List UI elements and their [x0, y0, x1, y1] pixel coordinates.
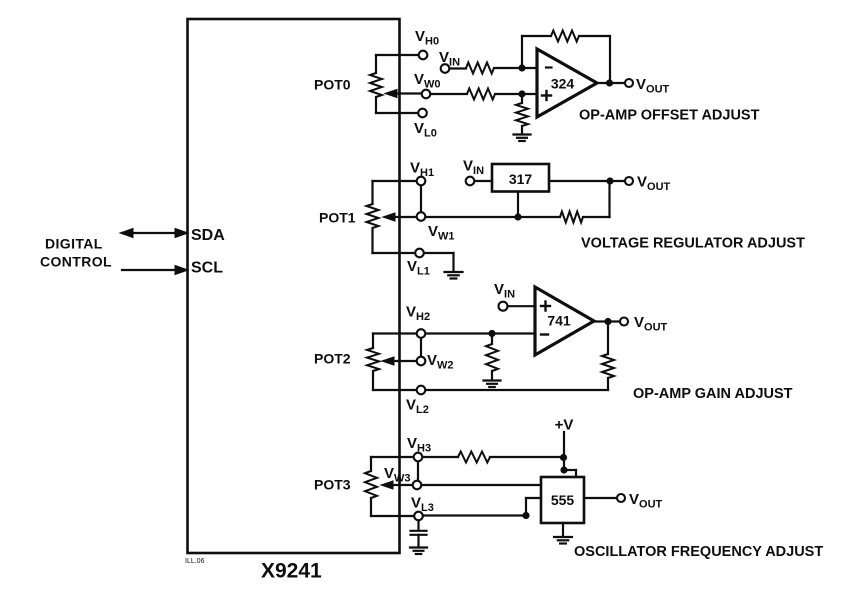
svg-text:317: 317: [509, 171, 533, 187]
svg-text:VH2: VH2: [406, 304, 430, 324]
svg-text:VW2: VW2: [427, 352, 454, 372]
svg-text:VIN: VIN: [494, 281, 515, 301]
svg-text:VL2: VL2: [406, 397, 429, 417]
svg-text:OP-AMP GAIN ADJUST: OP-AMP GAIN ADJUST: [633, 386, 793, 402]
svg-text:SDA: SDA: [191, 227, 225, 244]
svg-text:VW0: VW0: [414, 71, 441, 91]
svg-text:VH0: VH0: [415, 28, 439, 48]
svg-text:VW1: VW1: [428, 223, 455, 243]
svg-text:324: 324: [551, 76, 575, 92]
svg-text:VOUT: VOUT: [634, 314, 668, 334]
svg-text:VOUT: VOUT: [637, 174, 671, 194]
svg-text:X9241: X9241: [261, 560, 322, 583]
svg-text:VOUT: VOUT: [636, 76, 670, 96]
svg-text:VL1: VL1: [407, 258, 430, 278]
svg-text:ILL.06: ILL.06: [185, 558, 205, 565]
svg-text:DIGITAL: DIGITAL: [45, 236, 103, 252]
svg-text:VIN: VIN: [463, 158, 484, 178]
svg-text:CONTROL: CONTROL: [40, 254, 112, 270]
svg-text:VOUT: VOUT: [629, 491, 663, 511]
svg-text:POT0: POT0: [314, 77, 351, 93]
svg-text:OSCILLATOR FREQUENCY ADJUST: OSCILLATOR FREQUENCY ADJUST: [574, 544, 823, 560]
svg-text:VW3: VW3: [384, 465, 411, 485]
svg-text:VOLTAGE REGULATOR ADJUST: VOLTAGE REGULATOR ADJUST: [581, 236, 805, 252]
svg-text:POT3: POT3: [314, 477, 351, 493]
svg-text:POT2: POT2: [314, 351, 351, 367]
svg-text:POT1: POT1: [319, 210, 356, 226]
svg-text:VL0: VL0: [414, 120, 437, 140]
svg-text:VL3: VL3: [411, 495, 434, 515]
svg-text:SCL: SCL: [191, 260, 223, 277]
svg-text:VH1: VH1: [410, 160, 434, 180]
svg-text:VH3: VH3: [407, 435, 431, 455]
svg-text:OP-AMP OFFSET ADJUST: OP-AMP OFFSET ADJUST: [579, 108, 760, 124]
svg-text:741: 741: [547, 313, 571, 329]
svg-text:555: 555: [551, 492, 575, 508]
